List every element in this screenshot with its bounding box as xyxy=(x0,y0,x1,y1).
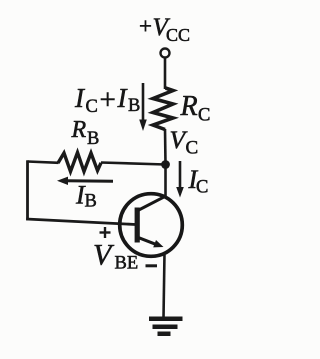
svg-text:C: C xyxy=(186,138,199,159)
label RC xyxy=(180,91,211,126)
wire base (bottom horizontal) xyxy=(26,219,135,225)
minus sign (VBE polarity) xyxy=(146,264,158,267)
transistor collector diagonal xyxy=(138,196,166,210)
transistor base bar xyxy=(135,208,140,243)
svg-text:BE: BE xyxy=(115,254,139,274)
wire node to RB (right segment) xyxy=(101,163,166,165)
svg-text:CC: CC xyxy=(166,25,190,45)
transistor emitter diagonal with arrowhead xyxy=(139,238,164,248)
plus sign (VBE polarity) xyxy=(100,227,111,238)
svg-text:B: B xyxy=(128,96,140,116)
svg-text:B: B xyxy=(85,192,97,212)
label IB xyxy=(75,181,97,212)
wire emitter to ground xyxy=(164,253,165,318)
svg-text:+: + xyxy=(139,14,152,39)
terminal +VCC xyxy=(161,49,170,58)
label VC xyxy=(170,125,199,159)
current arrow IC xyxy=(176,161,184,198)
node VC junction dot xyxy=(161,160,170,169)
wire VCC terminal to RC xyxy=(164,59,167,90)
node +VCC label xyxy=(139,14,190,46)
wire node to collector xyxy=(164,165,167,198)
current arrow IB xyxy=(57,177,113,185)
svg-text:R: R xyxy=(180,91,198,122)
label IC+IB xyxy=(74,83,140,117)
resistor RB xyxy=(58,153,101,172)
svg-text:C: C xyxy=(86,97,98,117)
wire RB left segment xyxy=(28,162,59,163)
svg-text:B: B xyxy=(87,129,99,149)
label VBE xyxy=(93,239,138,274)
svg-text:C: C xyxy=(198,106,210,126)
current arrow IC+IB xyxy=(139,83,147,131)
transistor Q1 body circle xyxy=(120,194,183,257)
ground xyxy=(149,317,183,337)
svg-text:+: + xyxy=(100,84,116,116)
resistor RC xyxy=(153,88,173,130)
wire left vertical xyxy=(26,160,29,220)
wire RC to node VC xyxy=(164,129,167,164)
label IC xyxy=(188,165,209,198)
svg-text:R: R xyxy=(71,117,87,143)
svg-text:C: C xyxy=(196,178,208,198)
label RB xyxy=(71,117,100,149)
